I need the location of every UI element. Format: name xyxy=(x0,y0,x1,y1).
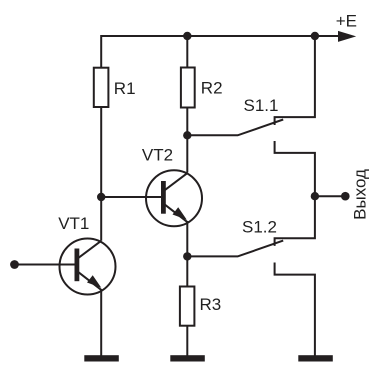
svg-text:R2: R2 xyxy=(201,79,223,98)
svg-text:VT2: VT2 xyxy=(142,146,173,165)
svg-text:Выход: Выход xyxy=(350,169,369,220)
svg-text:S1.1: S1.1 xyxy=(244,96,279,115)
svg-text:R3: R3 xyxy=(200,295,222,314)
svg-text:+E: +E xyxy=(336,12,357,31)
svg-text:S1.2: S1.2 xyxy=(242,217,277,236)
svg-text:VT1: VT1 xyxy=(58,214,89,233)
svg-text:R1: R1 xyxy=(114,79,136,98)
